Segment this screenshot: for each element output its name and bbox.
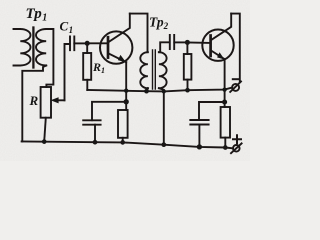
junction dot secondary ground xyxy=(161,142,166,147)
junction dot T2 emitter tee xyxy=(222,99,227,104)
transformer Tp1 primary winding xyxy=(14,29,31,66)
wire C2 to node B xyxy=(174,41,187,43)
wire C1 to node A xyxy=(74,42,87,44)
transistor T2 circle xyxy=(202,30,233,61)
transistor T1 circle xyxy=(100,31,132,63)
transformer Tp1 secondary winding xyxy=(36,29,46,66)
junction dot C3 ground xyxy=(93,140,98,145)
resistor R1 xyxy=(83,53,91,80)
transformer Tp2 core xyxy=(153,50,156,89)
ground rail (bottom) xyxy=(22,141,233,148)
capacitor C3 bottom lead xyxy=(94,125,96,143)
transformer Tp2 label xyxy=(149,15,169,32)
wire T2 collector top link to minus terminal xyxy=(231,14,240,82)
capacitor C1 label xyxy=(60,19,74,36)
wire Tp2 secondary top to C2 xyxy=(159,42,170,52)
potentiometer R label xyxy=(29,93,39,108)
plus sign xyxy=(233,135,241,143)
wire tee to capacitor C4 xyxy=(199,102,225,120)
junction dot Tp2 primary rail xyxy=(144,89,149,94)
minus sign xyxy=(233,78,239,80)
junction dot R2 ground xyxy=(120,140,125,145)
transformer Tp2 secondary winding xyxy=(159,52,167,88)
minus terminal xyxy=(232,84,239,91)
resistor R2 bottom lead xyxy=(122,138,124,143)
transformer Tp1 core xyxy=(32,28,34,68)
transistor T1 emitter wire down xyxy=(125,62,127,110)
junction dot T2 emitter rail crossing xyxy=(222,87,226,91)
junction dot C4 ground xyxy=(197,144,202,149)
plus terminal xyxy=(233,145,240,152)
transistor T1 base bar xyxy=(107,37,110,57)
potentiometer R xyxy=(41,87,51,118)
transistor T2 emitter wire down xyxy=(224,59,226,107)
junction dot R3 rail xyxy=(185,88,190,93)
resistor R4 (T2 emitter load) xyxy=(221,107,230,138)
capacitor C1 plates xyxy=(70,37,74,51)
potentiometer wiper arrow xyxy=(55,99,65,101)
resistor R3 (T2 bias) xyxy=(184,54,192,80)
resistor R1 top lead xyxy=(86,43,88,53)
potentiometer R bottom lead xyxy=(44,118,46,142)
transistor T1 collector xyxy=(109,14,130,42)
junction dot R4 ground xyxy=(223,145,228,150)
resistor R1 label xyxy=(92,60,105,75)
wire Tp2 secondary bottom to ground xyxy=(159,88,164,145)
resistor R1 bottom lead xyxy=(86,80,88,90)
junction dot emitter tee xyxy=(124,99,129,104)
resistor R3 top lead xyxy=(186,42,188,54)
svg-text:R: R xyxy=(29,93,39,108)
transistor T2 emitter xyxy=(212,51,225,59)
transistor T2 base bar xyxy=(209,36,212,57)
node B junction dot xyxy=(185,40,190,45)
junction dot emitter rail crossing xyxy=(124,89,128,93)
transistor T1 emitter arrow xyxy=(118,55,125,61)
wire secondary bottom to ground rail xyxy=(22,66,46,142)
capacitor C3 plates xyxy=(83,120,100,124)
capacitor C4 bottom lead xyxy=(198,125,200,147)
resistor R2 (T1 emitter resistor) xyxy=(118,110,128,138)
transformer Tp2 primary winding xyxy=(140,52,148,88)
wire node B to T2 base xyxy=(187,42,209,44)
resistor R3 bottom lead xyxy=(187,80,189,91)
wire node A to T1 base xyxy=(87,42,106,44)
junction dot secondary rail crossing xyxy=(162,89,166,93)
wire secondary top to R top xyxy=(46,29,53,87)
capacitor C4 plates xyxy=(190,120,208,125)
wiper wire up to C1 xyxy=(65,44,70,100)
transistor T1 emitter xyxy=(109,54,126,62)
transistor T2 emitter arrow xyxy=(218,53,224,59)
negative supply rail xyxy=(87,88,232,92)
transformer Tp1 label xyxy=(26,6,48,24)
transformer Tp2 primary bottom lead xyxy=(147,88,148,91)
node A junction dot xyxy=(85,41,90,46)
junction dot potentiometer ground xyxy=(42,139,47,144)
wire tee to capacitor C3 xyxy=(92,102,126,120)
wire T1 collector top link xyxy=(130,14,148,53)
transistor T2 collector xyxy=(212,14,231,40)
resistor R4 bottom lead xyxy=(224,138,226,148)
capacitor C2 plates xyxy=(170,35,174,49)
